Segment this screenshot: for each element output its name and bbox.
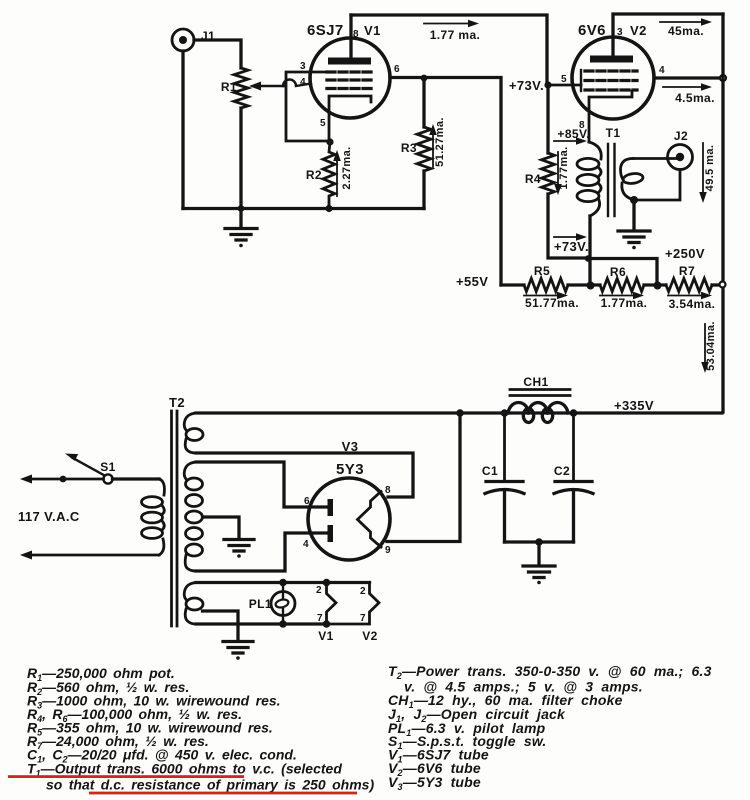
svg-text:R6: R6 [610, 265, 626, 279]
wire AC lead bottom arrow [20, 551, 159, 560]
V3 plate 1 [328, 499, 334, 516]
ground below T1 secondary [618, 231, 650, 249]
wire 5v lower lead to V3 pin8 [196, 453, 413, 497]
svg-text:J1: J1 [201, 29, 215, 43]
svg-text:C1: C1 [482, 464, 498, 478]
choke CH1 coil [508, 403, 568, 423]
transformer T2 hv winding [184, 462, 202, 571]
red underline output trans [8, 775, 244, 778]
svg-text:C2: C2 [554, 464, 570, 478]
svg-text:3: 3 [617, 27, 623, 38]
wire V1 pin6 plate lead [390, 78, 501, 286]
arrow 45ma top right [660, 18, 712, 26]
wire V1 pin8 riser [349, 15, 352, 57]
svg-text:1.77ma.: 1.77ma. [601, 296, 648, 310]
svg-text:51.77ma.: 51.77ma. [525, 296, 579, 310]
node heater V1 bottom [323, 620, 331, 628]
svg-text:2: 2 [360, 586, 366, 597]
svg-text:3: 3 [300, 61, 306, 72]
svg-text:V2: V2 [630, 23, 647, 38]
V3 filament [358, 492, 382, 548]
resistor R3 [417, 127, 431, 171]
svg-text:V3: V3 [342, 439, 359, 454]
wire J2 sleeve down and left [634, 170, 680, 201]
arrow 4.5ma [663, 83, 712, 91]
wire R3 bottom lead [422, 171, 425, 209]
svg-text:45ma.: 45ma. [668, 24, 704, 38]
V3 plate 2 [328, 525, 334, 542]
svg-text:V3—5Y3 tube: V3—5Y3 tube [388, 774, 481, 792]
svg-text:9: 9 [385, 545, 391, 556]
svg-text:4.5ma.: 4.5ma. [675, 91, 715, 105]
wire V3 pin9 to reservoir node [387, 413, 460, 542]
choke CH1 core [510, 390, 570, 396]
wire R4 top lead [546, 85, 549, 153]
svg-text:6: 6 [394, 64, 400, 75]
svg-text:1.77ma.: 1.77ma. [558, 146, 570, 189]
wire R6 to R7 [644, 283, 666, 286]
node R1 rail junction [238, 205, 245, 212]
tube V3 envelope [308, 478, 390, 560]
wire 6.3v center tap [203, 611, 239, 640]
resistor R6 [600, 279, 644, 292]
node filter ground junction [535, 538, 543, 546]
wire R5 to R6 [568, 283, 600, 286]
node +73V grid junction [544, 81, 551, 88]
svg-text:R2: R2 [306, 168, 322, 182]
V1 cathode [329, 96, 371, 141]
svg-text:53.04ma.: 53.04ma. [705, 321, 717, 371]
svg-text:8: 8 [353, 29, 359, 40]
wire J1 sleeve down to ground rail [181, 51, 184, 209]
arrow +85V pointer [554, 137, 587, 145]
svg-text:+250V: +250V [665, 246, 705, 261]
svg-text:4: 4 [300, 77, 306, 88]
svg-text:7: 7 [360, 613, 366, 624]
wire heater top run [196, 581, 370, 584]
svg-text:6V6: 6V6 [578, 22, 606, 39]
wire R7 to rail [712, 283, 719, 286]
wire S1 to line lead [63, 478, 104, 481]
V2 grids (dashes) [585, 71, 637, 90]
wire filter bottom [505, 540, 574, 543]
V2 plate [590, 56, 633, 63]
node PL1 top [279, 579, 287, 587]
V1 grids (dashes) [327, 72, 371, 89]
node heater V1 top [323, 579, 331, 587]
wire R4 bottom lead to +73V node [548, 194, 588, 258]
svg-text:CH1: CH1 [523, 375, 548, 389]
resistor R1 [234, 68, 248, 108]
node +73V lower junction [585, 255, 591, 261]
svg-text:T1: T1 [606, 126, 621, 140]
wire hv center tap [203, 517, 240, 538]
wire hook over pin3 lead [283, 80, 311, 86]
svg-text:4: 4 [303, 539, 309, 550]
svg-text:+55V: +55V [456, 274, 488, 289]
wire V1 pin3 lead and left bracket [286, 72, 329, 141]
svg-text:so that d.c. resistance of pri: so that d.c. resistance of primary is 25… [46, 777, 374, 793]
transformer T1 secondary coil [621, 159, 644, 200]
arrow 1.77ma top [424, 20, 479, 28]
transformer T1 core [608, 144, 615, 216]
wire +250V link [588, 259, 657, 286]
svg-text:2: 2 [316, 585, 322, 596]
svg-text:+335V: +335V [614, 398, 654, 413]
node R5 R6 junction [587, 282, 595, 290]
transformer T2 6.3v winding [184, 583, 203, 625]
node pin4 to rail (open) [720, 75, 726, 81]
svg-text:S1: S1 [100, 460, 115, 474]
tube V1 envelope [310, 38, 390, 118]
wire ground rail [183, 207, 424, 210]
svg-text:3.54ma.: 3.54ma. [669, 297, 716, 311]
svg-text:R1: R1 [221, 80, 237, 94]
transformer T1 primary coil [577, 142, 601, 216]
node R2 bottom junction [325, 205, 332, 212]
node secondary bottom junction [630, 196, 638, 204]
svg-text:7: 7 [317, 613, 323, 624]
svg-text:6SJ7: 6SJ7 [307, 22, 344, 39]
svg-text:49.5 ma.: 49.5 ma. [704, 145, 716, 192]
svg-text:4: 4 [659, 65, 665, 76]
wire heater bottom run [196, 622, 327, 625]
V2 cathode [589, 91, 632, 142]
svg-text:5: 5 [561, 74, 567, 85]
node C2 top junction [570, 409, 578, 417]
ground filter [523, 566, 555, 584]
arrow 53.04ma down [701, 324, 709, 373]
svg-text:R5: R5 [534, 264, 550, 278]
svg-text:117 V.A.C: 117 V.A.C [18, 509, 80, 524]
parts list left column [27, 665, 374, 793]
svg-text:2.27ma.: 2.27ma. [341, 146, 353, 189]
wire R3 top lead [422, 78, 425, 127]
wire top run V1 plate supply [351, 15, 547, 84]
resistor R2 [323, 142, 335, 209]
wire T1 primary bottom to rail [588, 216, 591, 285]
jack J2 [668, 145, 693, 170]
svg-text:V2: V2 [362, 629, 377, 643]
svg-text:51.27ma.: 51.27ma. [434, 117, 446, 167]
V1 plate [328, 58, 371, 65]
heater V1 chevron [327, 583, 337, 625]
svg-text:T2: T2 [169, 395, 185, 410]
wire pin5 V2 grid [548, 84, 581, 87]
switch S1 [65, 454, 113, 484]
jack J1 [172, 29, 194, 51]
arrow R2 current [333, 150, 341, 196]
capacitor C1 [485, 413, 524, 542]
transformer T2 5v winding [184, 413, 203, 453]
wire hv bottom to V3 pin4 [196, 533, 327, 571]
svg-text:8: 8 [385, 485, 391, 496]
svg-text:R4: R4 [525, 172, 541, 186]
node R6 R7 junction [654, 282, 662, 290]
node line lead dot [60, 476, 67, 483]
resistor R4 [542, 153, 555, 194]
wire 5v top run to choke and rail [196, 411, 722, 414]
svg-text:+73V.: +73V. [554, 239, 589, 254]
parts list right column [388, 663, 712, 792]
svg-text:J2: J2 [674, 129, 688, 143]
node C1 top junction [501, 409, 509, 417]
wire hv top to V3 pin6 [196, 462, 327, 507]
V2 grid bracket [580, 70, 582, 91]
node R3 top junction [421, 75, 428, 82]
ground hv center tap [224, 540, 254, 558]
wire V2 pin3 riser and top run to right rail [613, 14, 723, 55]
svg-text:R7: R7 [679, 264, 695, 278]
svg-text:5Y3: 5Y3 [336, 461, 364, 478]
svg-text:R3: R3 [401, 141, 417, 155]
arrow 49.5 ma down [699, 143, 707, 203]
wire J1 to R1 top [194, 40, 241, 68]
tube V2 envelope [572, 37, 654, 119]
wire R1 bottom to rail [239, 108, 242, 209]
svg-text:V1: V1 [318, 629, 333, 643]
svg-text:1.77 ma.: 1.77 ma. [430, 28, 481, 42]
node PL1 bottom [279, 620, 287, 628]
pilot lamp PL1 [271, 583, 295, 625]
node cathode junction [326, 138, 333, 145]
wire T1 secondary top to J2 tip [633, 157, 677, 160]
resistor R7 [666, 279, 712, 292]
wire to filter ground [537, 542, 540, 565]
ground 6.3v center tap [223, 642, 253, 660]
arrow R6 current [600, 292, 644, 300]
arrow +73V pointer [554, 233, 587, 241]
transformer T2 primary coil [142, 479, 165, 555]
node R7 rail (open) [720, 282, 726, 288]
svg-text:+73V.: +73V. [509, 78, 544, 93]
wire V2 pin4 screen lead [654, 76, 720, 79]
svg-text:5: 5 [320, 118, 326, 129]
arrow R3 current [429, 124, 437, 167]
wire S1 to T2 primary [113, 477, 160, 480]
node reservoir junction [456, 409, 464, 417]
transformer T2 core [172, 411, 178, 626]
potentiometer wiper arrow into R1 [249, 82, 284, 91]
wire AC lead top arrow [20, 475, 63, 484]
wire +55V rail left segment [501, 283, 524, 286]
svg-text:PL1: PL1 [249, 597, 272, 611]
arrow R7 current [668, 292, 712, 300]
resistor R5 [524, 279, 568, 292]
capacitor C2 [554, 413, 593, 542]
svg-text:+85V.: +85V. [557, 127, 590, 141]
wire to ground T1 [632, 200, 635, 230]
heater V2 chevron [327, 583, 380, 625]
wire right rail [721, 14, 724, 412]
svg-text:6: 6 [304, 496, 310, 507]
ground below R1 [225, 209, 257, 248]
svg-text:V1: V1 [364, 23, 381, 38]
arrow R5 current [524, 292, 568, 300]
arrow R4 current down [554, 152, 562, 195]
red underline resistance note [89, 792, 357, 795]
